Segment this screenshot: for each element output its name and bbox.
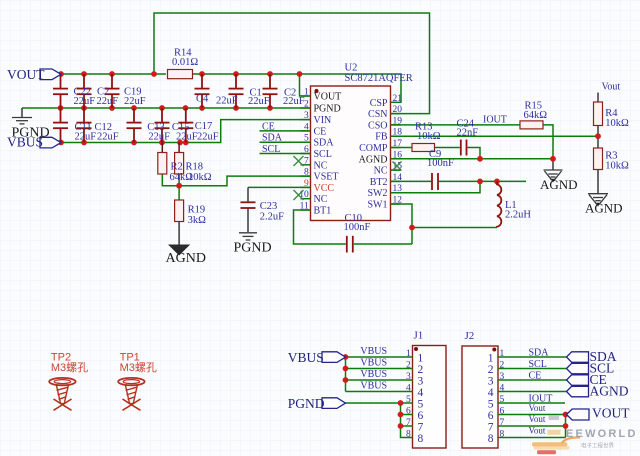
svg-text:EEWORLD: EEWORLD [566,428,638,440]
capacitor C13 bottom row 3 [127,108,142,143]
svg-text:3kΩ: 3kΩ [188,215,207,226]
svg-text:BT1: BT1 [314,206,332,217]
svg-text:18: 18 [393,128,403,138]
ground AGND solid triangle under R19 [166,245,206,267]
resistor R14 [168,48,199,79]
wire R2 R18 bottom to VSET [162,174,310,200]
wire SW1 down [391,204,413,244]
svg-text:Vout: Vout [529,425,546,435]
wire VBUS to J1 pins 1-4 [346,357,413,392]
port SDA [567,349,617,364]
net labels VBUS x4 [360,346,387,392]
svg-text:4: 4 [304,122,309,132]
svg-text:22uF: 22uF [248,96,270,107]
resistor R15 [520,101,547,129]
svg-text:3: 3 [418,375,424,387]
svg-text:100nF: 100nF [344,222,371,233]
svg-text:4: 4 [418,387,424,399]
svg-text:5: 5 [488,398,494,410]
ground PGND earth top left [12,118,50,141]
svg-text:64kΩ: 64kΩ [524,110,548,121]
wire R13 to C24 [435,147,460,149]
wire AGND symbol stem [552,159,554,170]
svg-text:U2: U2 [345,63,358,74]
ground AGND right [585,194,623,216]
wire FB to divider [391,135,599,137]
svg-text:20: 20 [393,105,403,115]
svg-text:VOUT: VOUT [314,92,342,103]
svg-text:22uF: 22uF [216,96,238,107]
svg-text:22uF: 22uF [283,96,305,107]
svg-text:AGND: AGND [359,154,388,165]
svg-text:5: 5 [418,398,424,410]
svg-text:22uF: 22uF [75,131,97,142]
svg-text:SCL: SCL [262,144,280,155]
testpoint TP1 labels [120,352,157,374]
svg-text:J1: J1 [414,330,424,342]
svg-text:19: 19 [393,116,403,126]
svg-text:2.2uF: 2.2uF [260,212,284,223]
svg-text:10kΩ: 10kΩ [417,131,441,142]
junction dots PGND J1 [398,400,404,429]
svg-text:VBUS: VBUS [360,381,387,392]
wire Vout stub to R4 [597,93,599,103]
wire VOUT rail to pin1 [300,74,311,96]
capacitor C11 bottom row 1 [53,108,68,143]
port VOUT right [567,406,631,421]
wire R19 to AGND [178,222,180,246]
svg-text:CSO: CSO [368,120,387,131]
wires J2 pins 6-8 to VOUT [498,415,567,438]
wire COMP to R13 [391,147,413,149]
svg-text:IOUT: IOUT [483,115,507,126]
svg-text:SDA: SDA [262,133,283,144]
wires J2 pins 1-5 [498,357,567,403]
svg-text:VCC: VCC [314,183,335,194]
svg-text:R18: R18 [186,161,204,172]
wire kelvin loop to CSN [154,13,430,114]
svg-text:22uF: 22uF [97,96,119,107]
testpoint TP1 screw [118,378,144,410]
J2 outside pin numbers [500,349,505,440]
wire PGND mid rail [22,107,311,109]
junction dot VSET link [176,183,182,189]
svg-text:8: 8 [418,433,424,445]
wire BT2 to C9 [391,180,432,182]
capacitor C15 bottom row 4 [155,108,170,143]
svg-text:AGND: AGND [590,384,629,399]
top cap labels [74,87,305,108]
wire SW2 [391,181,481,192]
no connect X pin15 [393,162,402,171]
U2 left pin stubs [301,96,311,210]
svg-text:J2: J2 [465,330,475,342]
svg-text:8: 8 [304,168,309,178]
net labels J2 [529,348,553,436]
svg-text:22uF: 22uF [74,96,96,107]
svg-text:Vout: Vout [529,414,546,424]
svg-text:6: 6 [304,145,309,155]
port VBUS at J1 [288,350,346,365]
junction dot L1 bottom [409,225,415,231]
no connect X pin10 [294,190,304,200]
op-amp U2 chip body [311,63,413,221]
svg-text:22nF: 22nF [457,127,479,138]
svg-text:1: 1 [418,352,424,364]
junction dots VOUT rail [58,71,302,77]
svg-text:C23: C23 [260,201,278,212]
capacitor C19 top row 3 [105,74,120,108]
junction dots VBUS J1 [343,354,349,383]
svg-text:0.01Ω: 0.01Ω [172,57,198,68]
svg-text:VBUS: VBUS [288,350,324,365]
wire NC15 stub [391,169,401,171]
wire BT1 to C10 [294,210,346,244]
svg-text:10kΩ: 10kΩ [188,172,212,183]
capacitor C2b [263,74,278,108]
wire SCL stub [260,153,311,155]
svg-text:1: 1 [488,352,494,364]
svg-text:Vout: Vout [529,403,546,413]
J1 outside pin numbers [406,349,411,440]
svg-text:AGND: AGND [540,177,578,192]
inductor L1 [497,181,531,227]
svg-text:BT2: BT2 [370,177,388,188]
svg-text:SW2: SW2 [368,188,388,199]
wire C9 to L1 top [439,180,526,182]
svg-text:VIN: VIN [314,115,332,126]
svg-text:12: 12 [393,196,403,206]
testpoint TP2 screw [49,378,75,410]
wire VOUT rail right segment to CSP [192,74,401,102]
svg-text:SCL: SCL [529,359,547,370]
wire AGND net pin16 [391,158,554,160]
wire CE stub [260,130,311,132]
svg-text:100nF: 100nF [427,158,454,169]
svg-text:M3螺孔: M3螺孔 [51,361,88,374]
bottom cap labels [75,121,219,142]
capacitor C4 [195,74,210,108]
junction dots J2 VOUT [563,412,569,429]
wire IOUT from CSO through R15 to AGND [391,125,554,159]
testpoint TP2 labels [51,352,88,374]
svg-text:PGND: PGND [288,396,325,411]
svg-text:CE: CE [314,126,327,137]
resistor R4 [594,102,630,129]
resistor R18 [170,143,212,183]
capacitor C9 [427,149,454,190]
svg-text:10kΩ: 10kΩ [605,161,629,172]
U2 right pin names [359,98,388,211]
svg-text:6: 6 [418,410,424,422]
connector J2 [462,330,498,448]
ground AGND mid [540,170,578,192]
wire PGND to J1 pins 5-8 [346,403,413,438]
wire C10 to SW1 node [354,243,412,245]
port SCL [567,361,615,376]
svg-text:1: 1 [304,88,309,98]
capacitor C17 bottom row 5 [178,108,193,143]
wire L1 bottom [412,227,497,229]
svg-text:3: 3 [488,375,494,387]
wire R4 to FB node [597,126,599,149]
junction dots VBUS rail [58,140,189,146]
svg-text:17: 17 [393,139,403,149]
port CE [567,372,607,387]
port VBUS left [7,135,61,150]
ground PGND earth under C23 [234,233,272,256]
svg-text:PGND: PGND [234,241,272,256]
svg-text:C4: C4 [196,94,209,105]
svg-text:9: 9 [304,179,309,189]
capacitor C12 bottom row 2 [77,108,92,143]
svg-text:21: 21 [393,94,403,104]
wire R3 to AGND [597,170,599,194]
resistor R19 [175,200,207,226]
svg-text:22uF: 22uF [97,131,119,142]
svg-text:3: 3 [304,111,309,121]
junction dot SW2 BT2 [477,179,483,185]
svg-text:10kΩ: 10kΩ [605,118,629,129]
J1 inside pin numbers [418,352,424,445]
capacitor C24 [457,119,479,156]
svg-text:5: 5 [304,134,309,144]
svg-text:4: 4 [488,387,494,399]
wire C23 to PGND [247,209,249,232]
svg-text:VOUT: VOUT [7,67,45,82]
svg-text:2: 2 [488,364,494,376]
watermark EEWORLD logo [532,415,638,454]
svg-text:8: 8 [488,433,494,445]
resistor R3 [594,148,630,172]
svg-text:2: 2 [304,100,309,110]
capacitor C2 top row 2 [77,74,92,108]
svg-text:AGND: AGND [585,201,623,216]
svg-text:FB: FB [375,132,388,143]
svg-text:M3螺孔: M3螺孔 [120,361,157,374]
wire SDA stub [260,141,311,143]
svg-text:11: 11 [300,202,309,212]
svg-text:PGND: PGND [314,104,341,115]
svg-text:22uF: 22uF [124,96,146,107]
wire C24 to AGND net [468,148,481,159]
capacitor C22 top row 1 [53,74,68,108]
svg-text:R19: R19 [188,205,206,216]
svg-text:VOUT: VOUT [592,406,630,421]
svg-text:NC: NC [314,194,328,205]
svg-text:CE: CE [262,121,275,132]
svg-text:10: 10 [299,190,309,200]
svg-text:7: 7 [418,421,424,433]
U2 right pin numbers [393,94,403,206]
capacitor C23 [241,201,285,223]
port VOUT top left [7,67,61,82]
resistor R2 [158,143,167,175]
svg-text:VSET: VSET [314,172,339,183]
capacitor C1 [229,74,244,108]
U2 left pin names [314,92,342,217]
svg-text:COMP: COMP [359,143,388,154]
svg-text:Vout: Vout [602,82,621,93]
junction dots PGND mid rail [58,105,273,111]
port AGND [567,384,629,399]
svg-text:2.2uH: 2.2uH [505,210,531,221]
connector J1 [413,330,447,449]
svg-text:14: 14 [393,173,403,183]
svg-text:NC: NC [374,166,388,177]
svg-text:R2: R2 [171,161,183,172]
svg-text:CSN: CSN [368,109,387,120]
svg-text:SCL: SCL [314,149,332,160]
svg-text:NC: NC [314,160,328,171]
svg-text:VBUS: VBUS [360,369,387,380]
svg-text:VBUS: VBUS [360,358,387,369]
svg-text:电子工程世界: 电子工程世界 [581,442,615,450]
svg-text:22uF: 22uF [148,131,170,142]
junction dot C24 AGND [477,156,483,162]
svg-text:16: 16 [393,150,403,160]
junction dot R15 AGND [550,156,556,162]
svg-text:22uF: 22uF [197,131,219,142]
svg-text:7: 7 [304,156,309,166]
wire VBUS rail to VIN [61,120,311,143]
svg-text:VBUS: VBUS [7,135,43,150]
U2 right pin stubs [391,102,401,204]
svg-text:CE: CE [529,371,542,382]
no connect X pin7 [294,156,304,166]
port PGND at J1 [288,396,346,411]
wire VOUT rail top left segment [61,73,166,75]
J2 inside pin numbers [488,352,494,445]
junction dot FB divider [595,133,601,139]
svg-text:22uF: 22uF [176,131,198,142]
wire VCC to C23 [248,186,311,188]
U2 left pin numbers [299,88,309,212]
junction dot L1 top [494,179,500,185]
svg-text:2: 2 [418,364,424,376]
svg-text:7: 7 [488,421,494,433]
svg-text:SDA: SDA [529,348,550,359]
svg-text:VBUS: VBUS [360,346,387,357]
svg-text:CSP: CSP [370,98,388,109]
capacitor C10 [344,213,371,253]
resistor R13 [412,122,441,152]
svg-text:AGND: AGND [166,251,206,266]
svg-text:SDA: SDA [314,138,335,149]
svg-text:13: 13 [393,184,403,194]
svg-text:SC8721AQFER: SC8721AQFER [345,73,413,84]
svg-text:6: 6 [488,410,494,422]
svg-text:SW1: SW1 [368,200,388,211]
